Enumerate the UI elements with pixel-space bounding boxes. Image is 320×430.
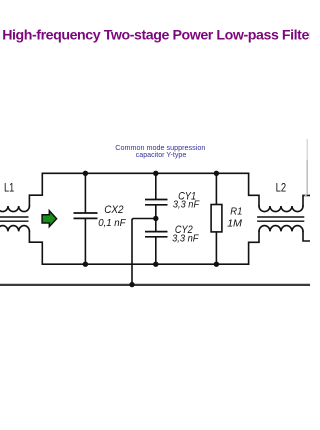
- wire: top rail of filter: [42, 172, 248, 174]
- svg-text:CX2: CX2: [104, 204, 123, 216]
- wire: bottom rail of filter: [42, 263, 248, 265]
- wire: L1 bottom-right step: [29, 231, 42, 264]
- wire: L2 top-left step: [249, 173, 259, 206]
- L2 bottom winding arcs: [259, 226, 303, 232]
- capacitor CX2 leads: [84, 173, 86, 212]
- annotation: Common mode suppression capacitor Y-type: [115, 145, 205, 159]
- L1 core line upper: [0, 216, 28, 218]
- node: top rail / CX2: [83, 171, 88, 176]
- svg-text:1M: 1M: [227, 218, 242, 229]
- wire: L2 top-right exit: [303, 195, 310, 206]
- wire: L2 bottom-right exit: [303, 231, 310, 241]
- svg-text:3,3 nF: 3,3 nF: [172, 234, 199, 245]
- resistor R1 body: [211, 205, 222, 232]
- wire: L1 top-right step: [29, 173, 42, 206]
- capacitor CY1 lead top: [155, 173, 157, 198]
- wire: L2 bottom-left step: [249, 231, 259, 264]
- node: top rail / CY1: [153, 171, 158, 176]
- component labels: [4, 183, 286, 245]
- earth rail across page: [0, 284, 310, 286]
- L1 top winding arcs: [0, 206, 29, 212]
- L1 bottom winding arcs: [0, 226, 29, 232]
- node: bottom rail / CX2: [83, 262, 88, 267]
- capacitor CY2 lead bottom: [155, 238, 157, 265]
- L2 top winding arcs: [259, 206, 303, 212]
- resistor R1 leads: [215, 173, 217, 204]
- svg-text:R1: R1: [230, 206, 242, 217]
- L1 core line lower: [0, 220, 28, 222]
- node: top rail / R1: [214, 171, 219, 176]
- svg-text:3,3 nF: 3,3 nF: [173, 200, 200, 211]
- capacitor CY1 plates: [145, 199, 168, 201]
- wire: CY midpoint to earth rail: [132, 219, 156, 285]
- L2 core line lower: [258, 220, 304, 222]
- svg-text:High-frequency Two-stage Power: High-frequency Two-stage Power Low-pass …: [2, 28, 310, 44]
- junction dots: [83, 171, 219, 288]
- node: bottom rail / R1: [214, 262, 219, 267]
- arrow: power flow indicator: [42, 211, 57, 227]
- L2 core line upper: [258, 216, 304, 218]
- wire: faint stub exiting top right: [306, 139, 308, 160]
- svg-text:capacitor Y-type: capacitor Y-type: [136, 152, 187, 159]
- node: earth rail junction: [129, 282, 134, 287]
- capacitor CY2 plates: [145, 231, 168, 233]
- capacitor CY1 lead bottom: [155, 206, 157, 231]
- svg-text:0,1 nF: 0,1 nF: [98, 218, 126, 229]
- node: CY1/CY2 midpoint: [153, 216, 158, 221]
- svg-text:L2: L2: [276, 183, 287, 195]
- svg-text:L1: L1: [4, 183, 14, 195]
- capacitor CX2 plates: [74, 200, 168, 237]
- node: bottom rail / CY2: [153, 262, 158, 267]
